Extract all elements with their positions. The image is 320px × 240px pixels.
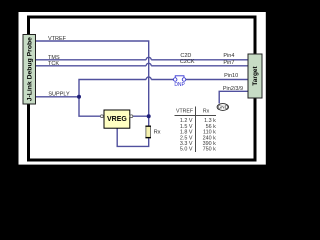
svg-text:J-Link Debug Probe: J-Link Debug Probe xyxy=(27,37,34,101)
svg-text:Rx: Rx xyxy=(154,130,161,136)
svg-text:GND: GND xyxy=(218,105,229,110)
svg-text:750 k: 750 k xyxy=(203,147,216,153)
svg-text:Pin2/3/9: Pin2/3/9 xyxy=(223,86,243,92)
svg-text:Pin10: Pin10 xyxy=(224,73,238,79)
svg-text:VREG: VREG xyxy=(107,116,127,123)
svg-text:5.0 V: 5.0 V xyxy=(180,147,193,153)
svg-text:TCK: TCK xyxy=(48,61,59,67)
svg-text:VTREF: VTREF xyxy=(48,36,67,42)
svg-text:C2D: C2D xyxy=(180,53,191,59)
svg-text:DNP: DNP xyxy=(174,82,185,88)
svg-text:VTREF: VTREF xyxy=(176,109,193,115)
svg-text:Target: Target xyxy=(252,65,259,85)
svg-text:SUPPLY: SUPPLY xyxy=(48,92,70,98)
svg-text:Pin4: Pin4 xyxy=(223,53,234,59)
svg-text:Pin7: Pin7 xyxy=(223,60,234,66)
svg-text:Rx: Rx xyxy=(203,109,210,115)
svg-text:C2CK: C2CK xyxy=(180,59,195,65)
